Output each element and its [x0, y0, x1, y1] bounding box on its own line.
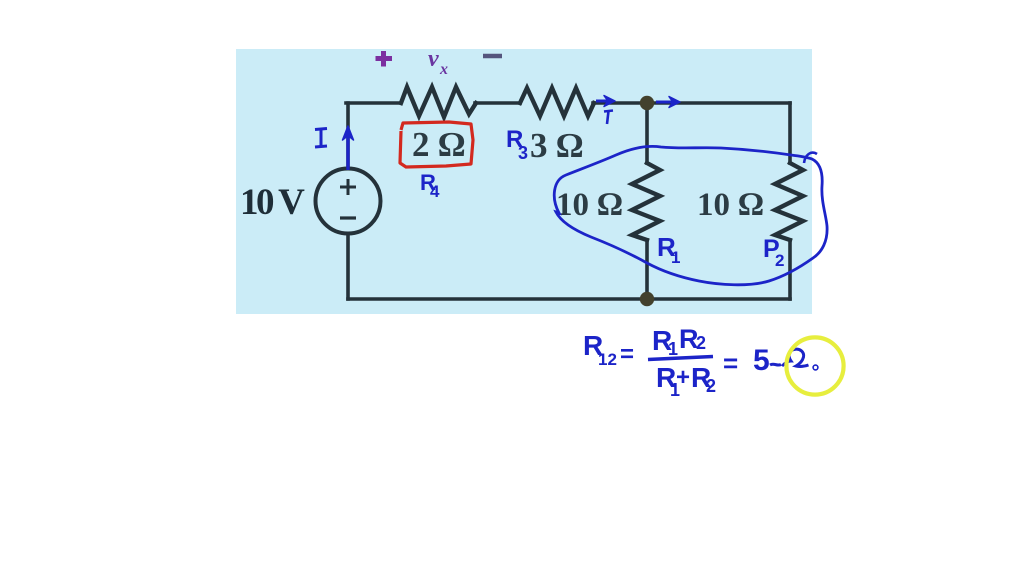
annotation: small current arrow before node A with I [596, 100, 608, 103]
annotation: small handwritten I under arrow [604, 111, 613, 125]
voltage source minus sign [340, 216, 356, 219]
formula fraction bar [648, 357, 713, 360]
voltage source V1 circle [316, 169, 381, 234]
wire: source top up to top rail [346, 103, 350, 169]
annotation: freehand loop around R1 and R2 [554, 146, 827, 284]
circuit panel background [236, 49, 812, 314]
svg-text:3 Ω: 3 Ω [530, 126, 583, 165]
svg-text:=: = [723, 348, 738, 378]
resistor R1 zigzag (10 ohm) [632, 163, 660, 240]
wire: R2 to bottom-right corner [788, 240, 792, 299]
annotation: current arrow right of node A [656, 101, 673, 104]
svg-text:3: 3 [518, 143, 528, 163]
wire: node A to top-right corner [647, 101, 790, 105]
formula numerator R1R2 [652, 324, 706, 359]
annotation: blue up arrow on source wire [346, 132, 349, 170]
wire: R1 to bottom node [645, 240, 649, 299]
svg-text:2: 2 [696, 333, 706, 353]
wire: bottom rail [348, 297, 790, 301]
node A junction dot [640, 96, 654, 110]
annotation: handwritten I near source (blue) [315, 129, 327, 148]
formula R12 (blue handwriting) [583, 330, 617, 369]
resistor R3 zigzag (3 ohm) [520, 88, 594, 116]
formula denominator R1+R2 [656, 362, 716, 400]
svg-text:v: v [428, 46, 439, 72]
label minus of vx [483, 54, 502, 59]
svg-text:4: 4 [430, 182, 440, 201]
svg-text:1: 1 [671, 248, 680, 267]
formula dash connector [770, 363, 781, 367]
voltage source plus sign [340, 179, 356, 195]
wire: right branch top [788, 103, 792, 163]
formula omega (handwritten loop) [782, 349, 809, 366]
svg-text:2: 2 [775, 251, 784, 270]
svg-text:10 Ω: 10 Ω [556, 187, 623, 223]
label plus of vx (purple) [376, 51, 393, 67]
wire: source bottom down to bottom rail [346, 234, 350, 299]
svg-text:12: 12 [598, 350, 617, 369]
wire: between R4 and R3 [475, 101, 520, 105]
wire: R3 to node A [593, 101, 647, 105]
annotation: pen hook at top right of loop [804, 153, 817, 163]
svg-text:x: x [439, 61, 448, 78]
annotation: red box around 2 ohm [400, 122, 473, 167]
formula period (small ring) [813, 365, 818, 370]
svg-text:+: + [676, 364, 690, 391]
resistor R4 zigzag (2 ohm) [401, 87, 476, 117]
svg-text:=: = [620, 341, 634, 368]
node B junction dot (bottom) [640, 292, 654, 306]
resistor R2 zigzag (10 ohm) [775, 163, 803, 240]
svg-text:5: 5 [753, 344, 770, 377]
svg-text:2: 2 [706, 376, 716, 396]
wire: top rail left segment to R4 [346, 101, 400, 105]
svg-text:2 Ω: 2 Ω [412, 125, 465, 164]
svg-text:10 Ω: 10 Ω [697, 187, 764, 223]
wire: node A down to R1 [645, 103, 649, 163]
svg-text:1: 1 [668, 339, 678, 359]
yellow highlight circle [786, 337, 843, 394]
svg-text:10 V: 10 V [240, 182, 305, 223]
